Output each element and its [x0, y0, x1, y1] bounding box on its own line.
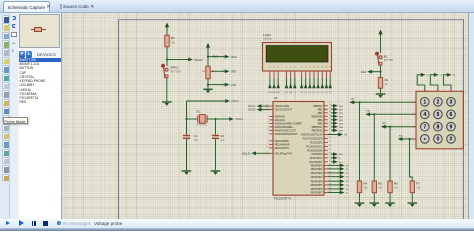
svg-text:1: 1	[423, 100, 426, 106]
wire row4 to R7	[410, 139, 413, 181]
svg-text:RC2/CCP1: RC2/CCP1	[310, 141, 323, 145]
svg-text:BUTTON: BUTTON	[384, 60, 394, 62]
keypad button 5	[434, 110, 443, 119]
wire keypad row 2	[374, 113, 416, 115]
wire R6 to ground	[389, 193, 391, 203]
svg-text:B1: B1	[384, 55, 388, 59]
svg-text:D2: D2	[346, 173, 350, 175]
svg-text:OSC2: OSC2	[248, 108, 256, 112]
wire junction to MCLR terminal	[167, 59, 186, 61]
resistor R4	[357, 181, 361, 193]
pin 4 RS of LCD1 with terminal	[286, 71, 288, 78]
pin 5 RW of LCD1 with terminal	[290, 71, 292, 78]
wire to OSC2 terminal	[216, 118, 229, 120]
pin RB2 (pin 35) right of U1	[324, 112, 328, 114]
power terminal above RV1	[206, 43, 210, 50]
pin 1 VSS of LCD1 with terminal	[269, 71, 271, 78]
svg-text:7: 7	[423, 125, 426, 131]
pin RE2/AN7/CS (pin 10) left of U1	[269, 147, 273, 149]
svg-text:RS: RS	[285, 92, 288, 94]
svg-text:RB5: RB5	[339, 123, 344, 125]
svg-text:RB4: RB4	[339, 120, 344, 122]
node VSS junction	[207, 84, 209, 86]
wire row1 to R4	[359, 102, 361, 181]
wire R5 to ground	[373, 193, 375, 203]
svg-text:RC4/SDI/SDA: RC4/SDI/SDA	[307, 148, 323, 152]
svg-text:RW: RW	[339, 154, 342, 156]
terminal keypad row 1	[349, 100, 356, 104]
svg-text:10k: 10k	[416, 187, 421, 190]
svg-text:RA2/AN2/VREF-/CVREF: RA2/AN2/VREF-/CVREF	[275, 122, 303, 126]
terminal keypad row 3	[381, 125, 388, 129]
terminal D4 at U1 right	[328, 180, 339, 182]
pin RA2/AN2/VREF-/CVREF (pin 4) left of U1	[269, 122, 273, 124]
wire R1 to ground	[380, 88, 382, 93]
pin 2 VDD of LCD1 with terminal	[273, 71, 275, 78]
terminal RB4 at U1 right	[331, 118, 338, 122]
svg-text:R5: R5	[378, 181, 382, 185]
svg-text:MCLR: MCLR	[194, 58, 203, 62]
svg-text:D1: D1	[346, 169, 350, 171]
pin RD7/PSP7 (pin 30) right of U1	[324, 192, 328, 194]
pin 8 D1 of LCD1 with terminal	[305, 71, 307, 78]
svg-text:RC6/TX/CK: RC6/TX/CK	[310, 156, 323, 160]
pin RC5/SDO (pin 24) right of U1	[324, 153, 328, 155]
svg-text:8: 8	[436, 125, 439, 131]
svg-text:C3: C3	[453, 75, 455, 77]
node keypad row 4	[408, 138, 410, 140]
pin 10 D3 of LCD1 with terminal	[313, 71, 315, 78]
svg-text:D1: D1	[304, 92, 306, 94]
svg-text:RB2: RB2	[382, 123, 386, 125]
svg-text:RD7/PSP7: RD7/PSP7	[311, 191, 323, 195]
wire R7 to ground	[411, 193, 413, 203]
pin 3 VEE of LCD1 with terminal	[277, 71, 279, 78]
svg-text:RC5/SDO: RC5/SDO	[311, 152, 322, 156]
svg-text:16: 16	[329, 137, 332, 139]
LCD screen	[266, 46, 328, 62]
wire junction to RA4 terminal	[372, 71, 380, 73]
svg-text:RB6: RB6	[339, 127, 344, 129]
keypad button 9	[447, 122, 456, 131]
wire to crystal left pin	[187, 118, 198, 120]
svg-text:BUTTON: BUTTON	[171, 71, 181, 74]
pot RV1	[206, 66, 210, 79]
resistor R2	[165, 35, 169, 47]
svg-text:10: 10	[266, 146, 269, 148]
capacitor C2	[212, 135, 219, 139]
keypad KP1 body	[416, 91, 463, 149]
wire keypad column 1 hook	[417, 75, 425, 92]
svg-text:RA4/T0CKI/C1OUT: RA4/T0CKI/C1OUT	[275, 129, 297, 133]
svg-text:1k: 1k	[202, 69, 205, 73]
svg-text:BTN1: BTN1	[171, 65, 179, 69]
ground below R4	[355, 202, 365, 207]
pin RA0/AN0 (pin 2) left of U1	[269, 115, 273, 117]
svg-text:D0: D0	[300, 92, 302, 94]
svg-text:R1: R1	[385, 78, 389, 82]
terminal keypad row 2	[365, 112, 372, 116]
terminal D7 at U1 right	[328, 192, 339, 194]
wire row3 to R6	[389, 127, 391, 181]
svg-text:R4: R4	[364, 181, 368, 185]
svg-text:1nF: 1nF	[194, 139, 199, 142]
svg-text:RB2: RB2	[339, 113, 344, 115]
svg-text:RB5: RB5	[318, 121, 323, 125]
pin RB5 (pin 38) right of U1	[324, 122, 328, 124]
pin 7 D0 of LCD1 with terminal	[301, 71, 303, 78]
svg-text:RD5/PSP5: RD5/PSP5	[311, 183, 323, 187]
wire row2 to R5	[373, 114, 375, 181]
svg-text:PIC16F877A: PIC16F877A	[274, 196, 291, 200]
terminal RB5 at U1 right	[331, 121, 338, 125]
pin RC0/T1OSO/T1CKI (pin 15) right of U1	[324, 134, 328, 136]
svg-text:R6: R6	[394, 181, 398, 185]
svg-text:VSS: VSS	[231, 83, 237, 87]
svg-text:RC1/T1OSI/CCP2: RC1/T1OSI/CCP2	[303, 137, 323, 141]
pin RC1/T1OSI/CCP2 (pin 16) right of U1	[324, 138, 328, 140]
ground terminal below C1	[182, 170, 192, 175]
svg-text:6: 6	[450, 112, 453, 118]
keypad button 6	[447, 110, 456, 119]
svg-text:OSC2: OSC2	[235, 117, 243, 121]
pin MCLR/Vpp/THV (pin 1) left of U1	[269, 152, 273, 154]
pin 13 D6 of LCD1 with terminal	[325, 71, 327, 78]
svg-text:SCL: SCL	[339, 162, 344, 164]
svg-text:RA4: RA4	[361, 70, 367, 74]
svg-text:RE0/AN5/RD: RE0/AN5/RD	[275, 139, 290, 143]
svg-text:RB2: RB2	[318, 111, 323, 115]
terminal RC0 at U1 right	[328, 134, 336, 136]
terminal D3 at U1 right	[328, 176, 339, 178]
svg-text:RA3/AN3/VREF+: RA3/AN3/VREF+	[275, 125, 294, 129]
wire R2 to junction	[166, 47, 168, 60]
wire BTN1 to ground	[166, 78, 168, 101]
terminal OSC1 near crystal	[223, 99, 230, 103]
terminal VSS	[223, 83, 230, 87]
terminal RB6 at U1 right	[331, 125, 338, 129]
node keypad row 2	[373, 113, 375, 115]
pin RC2/CCP1 (pin 17) right of U1	[324, 141, 328, 143]
pin RC4/SDI/SDA (pin 23) right of U1	[324, 149, 328, 151]
svg-text:U1: U1	[274, 96, 278, 100]
terminal D2 at U1 right	[328, 172, 339, 174]
terminal D5 at U1 right	[328, 184, 339, 186]
svg-text:D0: D0	[346, 165, 350, 167]
terminal D0 at U1 right	[328, 164, 339, 166]
wire RV1 top	[207, 50, 209, 66]
crystal X1	[198, 115, 207, 124]
svg-text:RS: RS	[344, 135, 348, 137]
wire junction to BTN1	[166, 60, 168, 67]
wire wiper to VEE terminal	[213, 70, 224, 72]
svg-text:9: 9	[450, 125, 453, 131]
pin RD4/PSP4 (pin 27) right of U1	[324, 180, 328, 182]
resistor R1	[378, 77, 382, 88]
pin RA1/AN1 (pin 3) left of U1	[269, 119, 273, 121]
pin RD2/PSP2 (pin 21) right of U1	[324, 172, 328, 174]
pin 9 D2 of LCD1 with terminal	[309, 71, 311, 78]
terminal keypad column 2	[434, 73, 439, 77]
svg-text:VDD: VDD	[231, 55, 237, 59]
svg-text:RD4/PSP4: RD4/PSP4	[311, 179, 323, 183]
node crystal left	[185, 118, 187, 120]
svg-text:RB0: RB0	[351, 99, 355, 101]
svg-text:C2: C2	[440, 75, 442, 77]
ground below R6	[385, 202, 395, 207]
pin 11 D4 of LCD1 with terminal	[317, 71, 319, 78]
terminal OSC2 near crystal	[227, 117, 234, 121]
power terminal above R2	[165, 23, 169, 30]
svg-text:17: 17	[329, 141, 332, 143]
svg-text:E: E	[339, 158, 341, 160]
svg-text:MCLR: MCLR	[242, 152, 250, 156]
keypad button 0	[434, 135, 443, 144]
wire crystal right vertical	[215, 119, 217, 135]
svg-text:RW: RW	[289, 92, 292, 94]
node MCLR junction	[166, 58, 168, 60]
wire B1 to junction	[380, 65, 382, 77]
display LCD1 LM016L body	[263, 43, 332, 72]
svg-text:RB3: RB3	[339, 116, 344, 118]
svg-text:R2: R2	[171, 36, 175, 40]
power terminal above B1	[378, 30, 382, 37]
wire C2 to ground terminal	[215, 139, 217, 170]
ground below BTN1	[162, 101, 172, 106]
svg-text:X1: X1	[196, 109, 200, 113]
resistor R7	[410, 181, 414, 193]
svg-text:C1: C1	[427, 75, 429, 77]
wire RV1 bottom	[207, 79, 209, 89]
svg-text:RB7/PGD: RB7/PGD	[312, 128, 323, 132]
pin 14 D7 of LCD1 with terminal	[329, 71, 331, 78]
svg-text:R7: R7	[416, 181, 420, 185]
svg-text:2: 2	[436, 100, 439, 106]
wire power to B1	[380, 37, 382, 53]
svg-text:RA1/AN1: RA1/AN1	[275, 118, 286, 122]
svg-text:10k: 10k	[394, 187, 399, 190]
pin RA3/AN3/VREF+ (pin 5) left of U1	[269, 126, 273, 128]
node keypad row 3	[389, 126, 391, 128]
svg-text:D7: D7	[329, 92, 331, 94]
svg-text:D3: D3	[346, 177, 350, 179]
svg-text:18: 18	[329, 145, 332, 147]
ground terminal below C2	[211, 170, 221, 175]
svg-text:0: 0	[436, 137, 439, 143]
pin RC7/RX/DT (pin 26) right of U1	[324, 161, 328, 163]
wire keypad column 2 hook	[430, 75, 438, 92]
capacitor C1	[183, 135, 190, 139]
pin RD5/PSP5 (pin 28) right of U1	[324, 184, 328, 186]
wire keypad row 3	[390, 126, 416, 128]
svg-text:RB0/INT: RB0/INT	[313, 104, 323, 108]
svg-text:RA0/AN0: RA0/AN0	[275, 115, 286, 119]
svg-text:10k: 10k	[378, 187, 383, 190]
wire OSC1 horizontal	[187, 100, 225, 102]
terminal SCL at U1 right	[331, 160, 338, 164]
wire R4 to ground	[359, 193, 361, 203]
pin RB1 (pin 34) right of U1	[324, 108, 328, 110]
svg-text:RC3/SCK/SCL: RC3/SCK/SCL	[306, 145, 323, 149]
svg-text:RB7: RB7	[339, 130, 344, 132]
wire crystal left vertical	[186, 101, 188, 135]
pin RC6/TX/CK (pin 25) right of U1	[324, 157, 328, 159]
node VDD junction	[207, 56, 209, 58]
wire C1 to ground terminal	[186, 139, 188, 170]
svg-text:RE2/AN7/CS: RE2/AN7/CS	[275, 146, 290, 150]
svg-text:8: 8	[267, 139, 269, 141]
resistor R5	[372, 181, 376, 193]
pin RB6/PGC (pin 39) right of U1	[324, 126, 328, 128]
ground below R1	[376, 93, 386, 98]
svg-text:CRYSTAL: CRYSTAL	[196, 124, 207, 127]
svg-text:VEE: VEE	[276, 92, 281, 94]
terminal RB0 at U1 right	[331, 104, 338, 108]
wire to VSS terminal	[208, 84, 224, 86]
svg-text:MCLR/Vpp/THV: MCLR/Vpp/THV	[275, 151, 293, 155]
svg-text:D3: D3	[313, 92, 315, 94]
terminal RA4	[367, 70, 374, 74]
pin RD1/PSP1 (pin 20) right of U1	[324, 168, 328, 170]
terminal RB7 at U1 right	[331, 128, 338, 132]
resistor preview symbol	[31, 29, 46, 30]
terminal MCLR (net to PIC)	[186, 58, 193, 62]
terminal RW at U1 right	[331, 152, 338, 156]
svg-text:RE1/AN6/WR: RE1/AN6/WR	[275, 143, 290, 147]
svg-text:9: 9	[267, 143, 269, 145]
svg-text:E: E	[294, 92, 296, 94]
button B1	[375, 52, 382, 66]
svg-text:4: 4	[267, 122, 269, 124]
svg-text:C2: C2	[220, 134, 224, 138]
svg-text:OSC1: OSC1	[231, 99, 239, 103]
svg-text:OSC2/CLKOUT: OSC2/CLKOUT	[275, 108, 293, 112]
button BTN1	[161, 64, 168, 78]
svg-text:D6: D6	[346, 189, 350, 191]
microcontroller U1 PIC16F877A body	[273, 102, 324, 196]
wire keypad row 1	[360, 101, 417, 103]
svg-text:RB3/PGM: RB3/PGM	[311, 114, 323, 118]
wire R2 top	[166, 30, 168, 36]
svg-text:RA5/AN4/SS/C2OUT: RA5/AN4/SS/C2OUT	[275, 132, 298, 136]
svg-text:7: 7	[267, 132, 269, 134]
svg-text:RB6/PGC: RB6/PGC	[312, 125, 323, 129]
keypad button *	[421, 135, 430, 144]
pin RD0/PSP0 (pin 19) right of U1	[324, 164, 328, 166]
svg-text:D2: D2	[309, 92, 311, 94]
svg-text:OSC1/CLKIN: OSC1/CLKIN	[275, 104, 290, 108]
svg-text:2: 2	[267, 115, 269, 117]
svg-text:RC0/T1OSO/T1CKI: RC0/T1OSO/T1CKI	[301, 133, 323, 137]
pin RD3/PSP3 (pin 22) right of U1	[324, 176, 328, 178]
pin RB0/INT (pin 33) right of U1	[324, 105, 328, 107]
terminal keypad column 1	[421, 73, 426, 77]
pin RB7/PGD (pin 40) right of U1	[324, 129, 328, 131]
wire to VDD terminal	[208, 56, 224, 58]
pin OSC1/CLKIN (pin 13) left of U1	[269, 105, 273, 107]
ground below R5	[370, 202, 380, 207]
node RA4 junction	[379, 71, 381, 73]
svg-text:5: 5	[267, 125, 269, 127]
svg-text:RC7/RX/DT: RC7/RX/DT	[310, 160, 323, 164]
keypad button #	[447, 135, 456, 144]
svg-text:LCD1: LCD1	[263, 33, 271, 37]
svg-text:RB1: RB1	[318, 107, 323, 111]
svg-text:D7: D7	[346, 193, 350, 195]
wire crystal right pin	[207, 118, 215, 120]
svg-text:VEE: VEE	[231, 70, 237, 74]
svg-text:D4: D4	[317, 92, 319, 94]
node crystal right	[214, 118, 216, 120]
terminal D1 at U1 right	[328, 168, 339, 170]
pin 6 E of LCD1 with terminal	[294, 71, 296, 78]
terminal keypad row 4	[398, 137, 405, 141]
ground below RV1	[203, 89, 213, 94]
pin RB3/PGM (pin 36) right of U1	[324, 115, 328, 117]
svg-text:D6: D6	[325, 92, 327, 94]
node keypad row 1	[358, 101, 360, 103]
svg-text:RD0/PSP0: RD0/PSP0	[311, 164, 323, 168]
keypad button 4	[421, 110, 430, 119]
svg-text:4: 4	[423, 112, 426, 118]
keypad button 3	[447, 98, 456, 107]
svg-text:RB3: RB3	[399, 135, 403, 137]
keypad button 7	[421, 122, 430, 131]
svg-text:1k: 1k	[385, 83, 388, 86]
terminal RB2 at U1 right	[331, 111, 338, 115]
svg-text:RD6/PSP6: RD6/PSP6	[311, 187, 323, 191]
keypad button 1	[421, 98, 430, 107]
pin OSC2/CLKOUT (pin 14) left of U1	[269, 109, 273, 111]
sheet border	[119, 20, 464, 219]
svg-text:RB1: RB1	[367, 111, 371, 113]
pin RC3/SCK/SCL (pin 18) right of U1	[324, 145, 328, 147]
svg-text:#: #	[450, 137, 453, 143]
svg-text:RV1: RV1	[213, 54, 219, 58]
svg-text:RD1/PSP1: RD1/PSP1	[311, 167, 323, 171]
svg-text:C1: C1	[194, 134, 198, 138]
pin RA4/T0CKI/C1OUT (pin 6) left of U1	[269, 129, 273, 131]
terminal VEE	[223, 69, 230, 73]
svg-text:RB4: RB4	[318, 118, 323, 122]
svg-text:RD2/PSP2: RD2/PSP2	[311, 171, 323, 175]
terminal D6 at U1 right	[328, 188, 339, 190]
pin RB4 (pin 37) right of U1	[324, 119, 328, 121]
pin RD6/PSP6 (pin 29) right of U1	[324, 188, 328, 190]
resistor R6	[388, 181, 392, 193]
svg-text:10k: 10k	[364, 187, 369, 190]
pin RE0/AN5/RD (pin 8) left of U1	[269, 140, 273, 142]
svg-text:5: 5	[436, 112, 439, 118]
svg-text:1nF: 1nF	[220, 139, 225, 142]
svg-text:D5: D5	[321, 92, 323, 94]
pin 12 D5 of LCD1 with terminal	[321, 71, 323, 78]
terminal RB3 at U1 right	[331, 114, 338, 118]
svg-text:3: 3	[267, 118, 269, 120]
wire keypad column 3 hook	[443, 75, 451, 92]
keypad button 2	[434, 98, 443, 107]
svg-text:LM016L: LM016L	[263, 37, 273, 40]
terminal keypad column 3	[447, 73, 452, 77]
svg-text:10k: 10k	[171, 41, 176, 45]
svg-text:3: 3	[450, 100, 453, 106]
pin RA5/AN4/SS/C2OUT (pin 7) left of U1	[269, 133, 273, 135]
pin RE1/AN6/WR (pin 9) left of U1	[269, 143, 273, 145]
svg-text:23: 23	[329, 149, 332, 151]
terminal E at U1 right	[331, 156, 338, 160]
terminal VDD	[223, 55, 230, 59]
ground below R7	[408, 202, 418, 207]
